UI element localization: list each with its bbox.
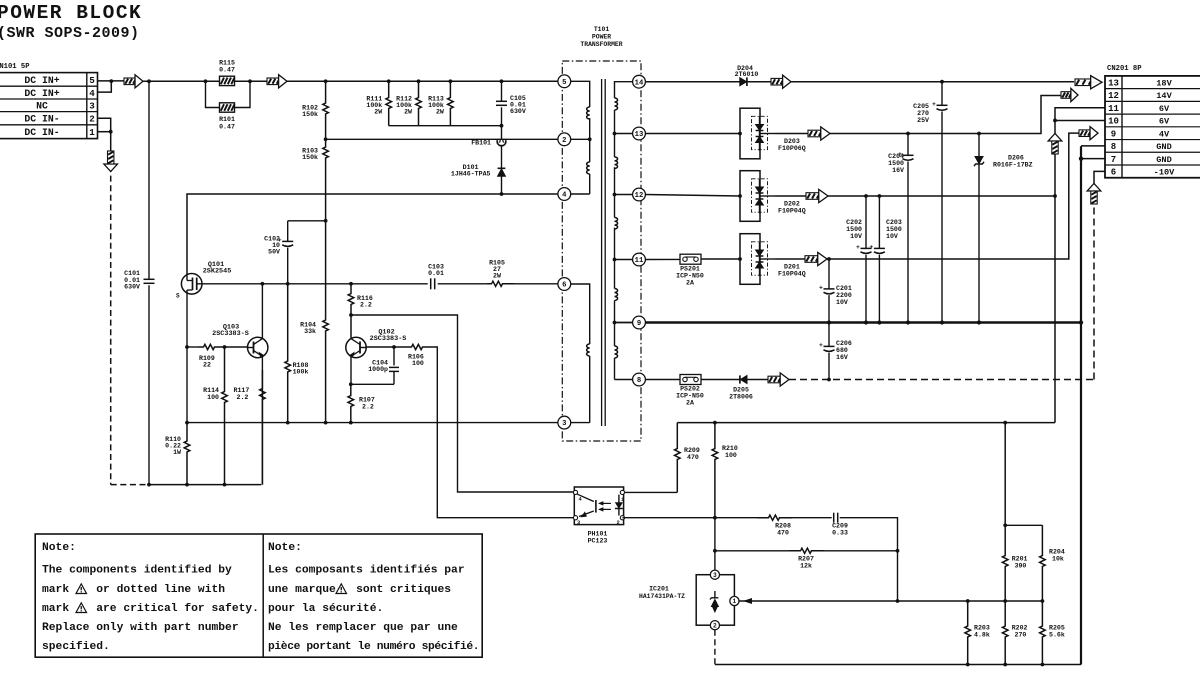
resistor R205 5.6k (1040, 601, 1046, 665)
wire PS201 to D201 (701, 258, 740, 260)
resistor R116 2.2 (348, 284, 354, 338)
svg-text:1W: 1W (173, 449, 181, 456)
svg-text:0.47: 0.47 (219, 67, 235, 74)
node 6V C202 tap (864, 194, 868, 198)
svg-text:+: + (819, 284, 823, 291)
transformer pin 12 (633, 188, 646, 201)
svg-text:R203: R203 (974, 625, 990, 632)
svg-text:4: 4 (89, 88, 95, 99)
wire -10V dashed rail (789, 379, 1094, 381)
arrow into CN201 pin9 (1079, 130, 1090, 137)
capacitor C102 10 50V (287, 221, 289, 242)
wire -10V dashed vertical (1093, 203, 1095, 380)
resistor R102 150k (323, 81, 329, 139)
svg-text:4: 4 (562, 192, 567, 200)
ferrite bead FB101 (501, 126, 503, 140)
wire 6V sense rail (677, 422, 1055, 424)
wire PH101 pin2 out (622, 517, 715, 519)
node emitter bus R110 top (185, 421, 189, 425)
node bus R102 tap (324, 79, 328, 83)
node pin10 junction (1053, 119, 1057, 123)
svg-text:1JH46-TPA5: 1JH46-TPA5 (451, 171, 491, 178)
svg-text:3: 3 (713, 572, 717, 579)
svg-text:DC IN+: DC IN+ (24, 75, 59, 86)
wire R208 C209 branch (715, 517, 757, 519)
capacitor C103 0.01 series (430, 278, 432, 289)
svg-text:mark or dotted line with: mark or dotted line with (42, 584, 225, 596)
node base C104 junction (392, 345, 396, 349)
svg-text:+: + (932, 101, 936, 108)
node GND C205 (940, 320, 944, 324)
svg-text:ICP-N50: ICP-N50 (676, 393, 704, 400)
transistor Q101 2SK2545 MOSFET (181, 274, 202, 295)
wire Q102 emitter (350, 356, 352, 384)
svg-text:R117: R117 (234, 387, 250, 394)
svg-text:1500: 1500 (846, 226, 862, 233)
wire Q103 collector (261, 284, 263, 338)
node gate bus C102/R108 junction (286, 282, 290, 286)
node R102/R103/pin2 junction (324, 137, 328, 141)
svg-text:11: 11 (1108, 104, 1119, 114)
svg-text:1: 1 (733, 598, 737, 605)
wire 14V rail (775, 133, 808, 135)
node base R114 junction (223, 345, 227, 349)
svg-text:4V: 4V (1159, 129, 1170, 139)
svg-text:270: 270 (1015, 632, 1027, 639)
arrow critical-path down arrow (104, 164, 118, 172)
arrow into CN201 pin13 (1075, 79, 1091, 86)
capacitor C202 1500 10V (865, 196, 867, 248)
svg-text:0.01: 0.01 (428, 270, 444, 277)
svg-text:+: + (856, 244, 860, 251)
svg-text:D205: D205 (733, 387, 749, 394)
svg-text:630V: 630V (124, 284, 140, 291)
transformer pin 11 (633, 253, 646, 266)
wire R106 to opto emitter (430, 347, 574, 518)
svg-text:PC123: PC123 (588, 538, 608, 545)
svg-text:C204: C204 (888, 153, 904, 160)
node R210 R207 junction (713, 549, 717, 553)
node emitter C104 junction (349, 382, 353, 386)
node bottom R205 (1041, 663, 1045, 667)
svg-text:D201: D201 (784, 264, 800, 271)
svg-text:Ne les remplacer que par une: Ne les remplacer que par une (268, 622, 458, 634)
svg-text:C203: C203 (886, 219, 902, 226)
wire pin7 stub (1081, 158, 1105, 160)
resistor R115 0.47 fusible (205, 80, 207, 82)
svg-text:2: 2 (617, 520, 620, 526)
protector PS202 ICP-N50 2A (680, 375, 701, 385)
resistor R101 0.47 fusible parallel branch (206, 81, 220, 107)
wire D205 to arrow (747, 379, 768, 381)
node 4V C201 tap (827, 257, 831, 261)
arrow 6V up arrow (1048, 134, 1062, 142)
transformer secondary winding (615, 82, 640, 98)
wire hot ground bus (111, 484, 149, 486)
diode D204 2T6010 (740, 78, 747, 86)
svg-text:(SWR SOPS-2009): (SWR SOPS-2009) (0, 25, 140, 42)
svg-text:12: 12 (1108, 91, 1119, 101)
dual diode D201 F10P04Q (740, 234, 760, 285)
svg-text:mark are critical for safet: mark are critical for safety. (42, 603, 259, 615)
diode D205 2T8006 (739, 375, 741, 383)
svg-text:D203: D203 (784, 138, 800, 145)
arrow 4V rail connection (805, 256, 818, 263)
wire pin10 stub (1055, 119, 1105, 121)
svg-text:2W: 2W (436, 109, 444, 116)
wire GND vertical to CN201 and bottom (1080, 146, 1082, 664)
wire Q101 drain to transformer pin4 (187, 194, 558, 275)
node 6V rail junction (1053, 194, 1057, 198)
diode D101 1JH46-TPA5 (501, 145, 503, 168)
resistor R111 100k 2W (386, 81, 392, 125)
svg-text:R209: R209 (684, 447, 700, 454)
svg-text:3: 3 (562, 420, 566, 428)
resistor R209 470 (675, 423, 681, 493)
svg-text:+: + (869, 244, 873, 251)
svg-text:R115: R115 (219, 60, 235, 67)
node C105/snubber junction (500, 124, 504, 128)
svg-text:6V: 6V (1159, 104, 1170, 114)
svg-text:12: 12 (635, 192, 644, 200)
svg-text:PS202: PS202 (680, 386, 700, 393)
node emitter bus R104 tap (324, 421, 328, 425)
node GND D206 (977, 320, 981, 324)
shunt regulator IC201 HA17431PA-TZ (696, 575, 734, 626)
svg-text:R114: R114 (203, 387, 219, 394)
transformer pin 5 (558, 75, 571, 88)
photocoupler PH101 PC123 (574, 487, 623, 525)
svg-text:2A: 2A (686, 400, 694, 407)
zener diode D206 R016F-17BZ (978, 134, 980, 157)
svg-text:11: 11 (635, 257, 644, 265)
arrow into CN201 pin12 (1061, 92, 1071, 99)
wire 11 to PS201 (645, 258, 680, 260)
capacitor C201 2200 10V (828, 259, 830, 289)
svg-text:T101: T101 (594, 26, 610, 33)
svg-text:5: 5 (89, 75, 95, 86)
svg-text:2.2: 2.2 (237, 394, 249, 401)
wire PS202 to D205 (701, 379, 740, 381)
node sense rail R210 (713, 421, 717, 425)
resistor R204 10k (1040, 525, 1046, 601)
wire 12 to D202 (645, 195, 740, 197)
svg-text:1500: 1500 (888, 160, 904, 167)
svg-text:pièce portant le numéro spécif: pièce portant le numéro spécifié. (268, 641, 479, 653)
wire CN101 pin4 jog (98, 81, 112, 92)
wire junction to C102 (288, 220, 326, 222)
svg-text:1500: 1500 (886, 226, 902, 233)
svg-text:R205: R205 (1049, 625, 1065, 632)
wire 4V rail (775, 258, 805, 260)
svg-text:R101: R101 (219, 116, 235, 123)
svg-text:DC IN+: DC IN+ (24, 88, 59, 99)
node bus R111 tap (387, 79, 391, 83)
transformer primary winding 6-3 (564, 284, 589, 344)
node 18V C205 tap (940, 80, 944, 84)
svg-text:100: 100 (725, 452, 737, 459)
resistor R110 0.22 1W (184, 423, 190, 485)
resistor R105 27 2W series (487, 281, 514, 286)
node 6V C203 tap (878, 194, 882, 198)
node pin1 rail C209 junction (896, 599, 900, 603)
svg-text:Note:: Note: (42, 542, 76, 554)
node gate bus R116 tap (349, 282, 353, 286)
node gate bus Q103 collector tap (261, 282, 265, 286)
svg-text:50V: 50V (268, 248, 280, 255)
node pin1 rail R204 (1041, 599, 1045, 603)
transistor Q103 2SC3383-S (248, 337, 268, 357)
node GND C202 (864, 320, 868, 324)
svg-text:22: 22 (203, 362, 211, 369)
svg-text:470: 470 (687, 454, 699, 461)
resistor R201 390 (1002, 423, 1008, 601)
resistor R108 100k (285, 284, 291, 423)
svg-text:NC: NC (36, 101, 48, 112)
transformer pin 9 (633, 316, 646, 329)
wire C209 to corner (840, 518, 898, 601)
svg-text:GND: GND (1156, 155, 1171, 165)
resistor R103 150k (323, 139, 329, 221)
wire Q102 base (366, 346, 389, 348)
svg-text:D202: D202 (784, 201, 800, 208)
capacitor C101 0.01 630V (148, 81, 150, 279)
wire PH101 pin1 to R209 (622, 491, 677, 493)
wire pin8 stub (1081, 145, 1105, 147)
resistor R109 22 (198, 344, 220, 349)
node winding pin11 tap (613, 258, 617, 262)
svg-text:C202: C202 (846, 219, 862, 226)
svg-text:2200: 2200 (836, 292, 852, 299)
svg-text:150k: 150k (302, 154, 318, 161)
svg-text:DC IN-: DC IN- (24, 127, 59, 138)
svg-text:C201: C201 (836, 285, 852, 292)
node 14V D206 tap (977, 132, 981, 136)
node D203 input (738, 132, 742, 136)
svg-text:R202: R202 (1012, 625, 1028, 632)
svg-text:5.6k: 5.6k (1049, 632, 1065, 639)
wire CN101 pin2 jog (98, 118, 111, 132)
wire primary DC bus (124, 80, 558, 82)
arrow 14V rail connection (808, 130, 821, 137)
resistor R107 2.2 (348, 384, 354, 422)
svg-text:pour la sécurité.: pour la sécurité. (268, 603, 383, 615)
wire GND rail from transformer pin9 (645, 321, 1081, 323)
resistor R202 270 (1002, 601, 1008, 665)
wire 13 to D203 (645, 133, 740, 135)
svg-text:2: 2 (713, 622, 717, 629)
wire CN101 pin1 (98, 131, 111, 133)
node hot gnd C101 (147, 483, 151, 487)
svg-text:7: 7 (1111, 155, 1116, 165)
node 14V C204 tap (906, 132, 910, 136)
svg-text:TRANSFORMER: TRANSFORMER (580, 41, 622, 48)
svg-text:13: 13 (1108, 78, 1119, 88)
wire Q101 source down (186, 293, 188, 423)
node D201 input (738, 257, 742, 261)
capacitor C105 0.01 630V (501, 81, 503, 101)
svg-text:14V: 14V (1156, 91, 1172, 101)
svg-text:F10P04Q: F10P04Q (778, 208, 806, 215)
node R210 bottom junction (713, 516, 717, 520)
capacitor C206 680 16V (828, 323, 830, 347)
transformer pin 8 (633, 373, 646, 386)
svg-text:2SC3383-S: 2SC3383-S (370, 335, 407, 343)
svg-text:5: 5 (562, 79, 566, 87)
wire R207 to vertical (824, 550, 898, 552)
svg-text:6: 6 (562, 282, 566, 290)
wire CN101 pin5 to bus (98, 80, 125, 82)
transformer pin 6 (558, 278, 571, 291)
wire R210 to IC201 pin3 (714, 518, 716, 571)
node R115 right (248, 79, 252, 83)
svg-text:The components identified by: The components identified by (42, 565, 232, 577)
svg-text:Replace only with part number: Replace only with part number (42, 622, 239, 634)
svg-text:PH101: PH101 (588, 531, 608, 538)
node bus R112 tap (417, 79, 421, 83)
node pin7 junction (1079, 156, 1083, 160)
svg-text:F10P04Q: F10P04Q (778, 271, 806, 278)
svg-text:2T8006: 2T8006 (729, 394, 753, 401)
wire R105 to pin6 (514, 283, 558, 285)
svg-text:6V: 6V (1159, 117, 1170, 127)
wire R201 R204 bridge (1005, 524, 1042, 526)
svg-text:16V: 16V (892, 167, 904, 174)
svg-text:9: 9 (637, 320, 641, 328)
svg-text:1: 1 (621, 497, 624, 503)
svg-text:8: 8 (1111, 142, 1116, 152)
node pin5/pin4 junction (109, 79, 113, 83)
node winding pin9 tap (613, 321, 617, 325)
svg-text:10: 10 (1108, 117, 1119, 127)
wire gate drive bus (202, 283, 428, 285)
node R115 left (204, 79, 208, 83)
svg-text:2W: 2W (493, 273, 501, 280)
svg-text:R210: R210 (722, 445, 738, 452)
svg-text:100k: 100k (293, 369, 309, 376)
node source/base-drive tap (185, 345, 189, 349)
node pin1 rail R201 (1003, 599, 1007, 603)
wire IC201 pin2 dashed (714, 630, 716, 665)
transformer pin 3 (558, 416, 571, 429)
svg-text:390: 390 (1015, 563, 1027, 570)
node pin1 rail R203 (966, 599, 970, 603)
svg-text:10k: 10k (1052, 556, 1064, 563)
dual diode D202 F10P04Q (740, 171, 760, 222)
svg-text:680: 680 (836, 347, 848, 354)
resistor R208 470 (757, 515, 792, 520)
node R201 R204 bridge (1003, 523, 1007, 527)
svg-text:100: 100 (207, 394, 219, 401)
capacitor C205 270 25V (941, 82, 943, 106)
svg-text:270: 270 (917, 110, 929, 117)
svg-text:10V: 10V (850, 233, 862, 240)
node GND rail junction (1079, 320, 1083, 324)
wire dashed critical line from pin1 down to hot ground (110, 132, 112, 151)
svg-text:18V: 18V (1156, 78, 1172, 88)
node drain line D101 junction (500, 192, 504, 196)
dual diode D203 F10P06Q (740, 108, 760, 159)
svg-text:10V: 10V (836, 299, 848, 306)
svg-text:14: 14 (635, 79, 644, 87)
transistor Q102 2SC3383-S (346, 337, 366, 357)
resistor R106 100 (406, 344, 430, 349)
wire to transformer pin2 (326, 138, 558, 140)
node GND C203 (877, 320, 881, 324)
node winding pin13 tap (613, 132, 617, 136)
resistor R112 100k 2W (416, 81, 422, 125)
svg-text:2: 2 (562, 137, 566, 145)
svg-text:D206: D206 (1008, 155, 1024, 162)
svg-text:13: 13 (635, 131, 644, 139)
arrow -10V up arrow (1087, 184, 1101, 192)
node R207 junction (896, 549, 900, 553)
resistor R104 33k (323, 221, 329, 423)
node bus R113 tap (449, 79, 453, 83)
arrow -10V rail connection (768, 376, 780, 383)
svg-text:POWER BLOCK: POWER BLOCK (0, 2, 142, 24)
svg-text:4.8k: 4.8k (974, 632, 990, 639)
svg-text:DC IN-: DC IN- (24, 114, 59, 125)
svg-text:2.2: 2.2 (362, 404, 374, 411)
svg-text:POWER: POWER (592, 34, 611, 41)
svg-text:Les composants identifiés par: Les composants identifiés par (268, 565, 465, 577)
wire IC201 pin1 rail (739, 600, 1042, 602)
svg-text:2W: 2W (374, 109, 382, 116)
transformer primary winding 5-2-4 (564, 81, 589, 107)
resistor R203 4.8k (965, 601, 971, 665)
transformer core (601, 79, 603, 426)
svg-text:CN101 5P: CN101 5P (0, 63, 30, 71)
svg-text:33k: 33k (304, 328, 316, 335)
wire opto collector branch (351, 315, 576, 492)
svg-text:CN201 8P: CN201 8P (1107, 65, 1142, 73)
node bus C105 tap (500, 79, 504, 83)
svg-text:16V: 16V (836, 354, 848, 361)
wire emitter sense bus to pin3 (187, 422, 558, 424)
arrow 6V rail connection (806, 193, 819, 200)
node -10V C206 tap (827, 378, 831, 382)
svg-text:Note:: Note: (268, 542, 302, 554)
wire snubber bottom rail (389, 125, 502, 127)
node Q102 collector / opto tap (349, 313, 353, 317)
svg-text:2SC3383-S: 2SC3383-S (212, 330, 249, 338)
svg-text:10V: 10V (886, 233, 898, 240)
svg-text:FB101: FB101 (471, 140, 491, 147)
resistor R114 100 (222, 347, 228, 485)
transformer pin 4 (558, 188, 571, 201)
svg-text:-10V: -10V (1154, 168, 1175, 178)
svg-text:C206: C206 (836, 340, 852, 347)
svg-text:C209: C209 (832, 523, 848, 530)
node D202 input (738, 194, 742, 198)
wire bottom rail (715, 664, 1081, 666)
node winding pin2 tap (588, 137, 592, 141)
svg-text:1000p: 1000p (368, 366, 388, 373)
transformer pin 13 (633, 127, 646, 140)
node GND C204 (906, 320, 910, 324)
node pin1/pin2 junction (109, 130, 113, 134)
svg-text:specified.: specified. (42, 641, 110, 653)
arrow bus connection arrow 2 (267, 78, 279, 85)
resistor R117 2.2 (260, 370, 266, 485)
svg-text:6: 6 (1111, 168, 1116, 178)
arrow bus connection arrow 1 (124, 78, 135, 85)
svg-text:S: S (176, 293, 180, 300)
wire R207 branch (715, 550, 789, 552)
svg-text:100: 100 (412, 360, 424, 367)
wire Q103 base (187, 346, 198, 348)
